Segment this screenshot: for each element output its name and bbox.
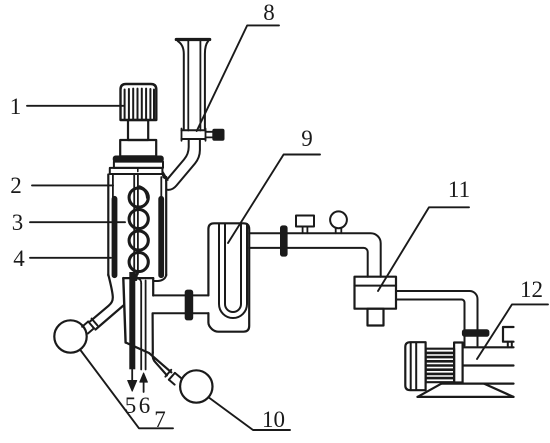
svg-text:8: 8 [263, 0, 275, 25]
svg-text:9: 9 [301, 126, 313, 151]
svg-text:5: 5 [125, 393, 137, 418]
svg-text:11: 11 [448, 177, 470, 202]
svg-text:3: 3 [12, 210, 24, 235]
svg-text:7: 7 [154, 407, 166, 432]
svg-text:4: 4 [13, 246, 25, 271]
svg-text:6: 6 [139, 393, 151, 418]
svg-text:2: 2 [10, 173, 22, 198]
svg-text:10: 10 [262, 407, 285, 432]
svg-text:12: 12 [520, 277, 543, 302]
svg-text:1: 1 [10, 94, 22, 119]
